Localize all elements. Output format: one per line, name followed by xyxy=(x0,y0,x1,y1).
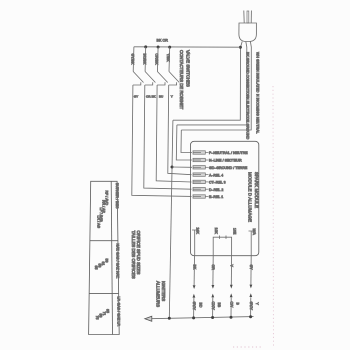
svg-text:B: B xyxy=(236,303,240,306)
wire switch 4 lower xyxy=(168,85,192,175)
junction dot bus igniter 2 xyxy=(211,316,214,319)
svg-text:D–REL 2: D–REL 2 xyxy=(209,188,223,192)
valve switch S1 blade xyxy=(133,72,143,83)
terminal REL2 xyxy=(193,188,209,191)
svg-text:CONTACTEURS DE ROBINET: CONTACTEURS DE ROBINET xyxy=(179,50,184,110)
spark module box U1 xyxy=(191,141,259,255)
table row separator 2 xyxy=(89,293,118,295)
svg-text:N–LINE / SECTEUR: N–LINE / SECTEUR xyxy=(209,159,242,163)
svg-text:BU/BK: BU/BK xyxy=(142,54,146,65)
plug P1 body xyxy=(239,23,257,42)
svg-text:CX/Y: CX/Y xyxy=(211,302,215,311)
terminal GROUND xyxy=(193,166,209,169)
svg-text:BK: BK xyxy=(193,265,197,270)
table header column line xyxy=(111,181,112,334)
junction dot bus tap 2 xyxy=(144,45,147,48)
svg-text:WH GREEN INSULATED: WH GREEN INSULATED xyxy=(256,52,260,93)
terminal REL1 xyxy=(193,195,209,198)
svg-text:GY/Y: GY/Y xyxy=(192,302,196,311)
junction dot plug-bus xyxy=(239,46,242,49)
svg-text:Y: Y xyxy=(171,95,173,99)
valve switch S2 blade xyxy=(145,72,155,83)
junction dot bus ground xyxy=(168,317,171,320)
wire neutral vertical xyxy=(181,130,192,153)
wire switch 2 upper xyxy=(144,47,147,72)
wire switch 1 upper xyxy=(132,47,135,72)
valve switch S3 blade xyxy=(157,72,167,83)
wire igniter 4 upper xyxy=(250,256,252,285)
svg-text:75: 75 xyxy=(95,316,99,320)
wire switch 3 lower xyxy=(156,85,191,182)
wire cord BK xyxy=(173,42,242,121)
arrow up igniter 2 xyxy=(211,294,214,298)
wire igniter 1 upper xyxy=(193,256,195,286)
svg-text:Y: Y xyxy=(255,303,259,306)
module pin stub 4 xyxy=(249,231,254,256)
wire ground vertical xyxy=(169,120,173,318)
svg-text:GD–GROUND / TERRE: GD–GROUND / TERRE xyxy=(209,166,248,170)
plug P1 prong 3 xyxy=(250,11,252,24)
svg-text:CT–REL 3: CT–REL 3 xyxy=(209,181,226,185)
svg-text:OR/BK: OR/BK xyxy=(155,54,159,66)
svg-text:ALLUMEURS: ALLUMEURS xyxy=(156,281,161,307)
label spark module xyxy=(248,172,260,222)
module pin ticks xyxy=(219,236,221,239)
svg-text:M/A: M/A xyxy=(252,229,256,236)
terminal REL3 xyxy=(193,180,209,183)
arrow down igniter 3 xyxy=(230,285,233,289)
valve switch S2 contact xyxy=(145,82,153,85)
svg-text:65: 65 xyxy=(94,266,98,270)
wire igniter 4 lower xyxy=(250,297,252,317)
arrow down igniter 2 xyxy=(212,285,215,289)
svg-text:GY/Y: GY/Y xyxy=(249,302,253,311)
module pin jumper bar xyxy=(213,237,231,256)
junction dot bus tap 3 xyxy=(157,46,160,49)
wire switch 4 upper xyxy=(168,47,171,71)
wire igniter 1 lower xyxy=(193,298,195,318)
svg-text:Y/BK: Y/BK xyxy=(166,54,170,63)
svg-text:GY/BK: GY/BK xyxy=(130,54,134,66)
chassis ground arrow xyxy=(145,316,152,321)
wire igniter 3 upper xyxy=(230,256,232,285)
terminal REL4 xyxy=(193,173,209,176)
wire line vertical xyxy=(176,125,192,160)
wire cord GR xyxy=(181,42,251,131)
arrow up igniter 1 xyxy=(193,294,196,298)
arrow down igniter 1 xyxy=(193,285,196,289)
svg-text:BD: BD xyxy=(198,303,202,308)
svg-text:MODULE D ALLUMAGE: MODULE D ALLUMAGE xyxy=(248,172,253,222)
wire igniter 3 lower xyxy=(230,297,232,317)
svg-text:TAILLES DES ORIFICES: TAILLES DES ORIFICES xyxy=(131,231,136,279)
svg-text:N INCOMING NEUTRAL: N INCOMING NEUTRAL xyxy=(256,94,260,134)
arrow up igniter 3 xyxy=(230,293,233,297)
junction dot bus igniter 1 xyxy=(192,316,195,319)
arrow up igniter 4 xyxy=(249,293,252,297)
wire switch 3 upper xyxy=(156,47,159,72)
table row separator 1 xyxy=(90,240,118,242)
svg-text:24K: 24K xyxy=(196,228,200,235)
terminal LINE xyxy=(193,158,209,161)
label igniters xyxy=(156,281,166,307)
label valve switches xyxy=(179,50,190,110)
scan artifact dots bottom right xyxy=(233,346,263,348)
module pin stub 1 xyxy=(192,230,197,256)
svg-text:NAT. GAS / GAZ NAT.: NAT. GAS / GAZ NAT. xyxy=(116,244,120,279)
svg-text:OR: OR xyxy=(211,265,215,271)
valve switch S4 contact xyxy=(169,82,177,85)
valve switch S1 contact xyxy=(133,82,141,85)
svg-text:BU: BU xyxy=(159,95,163,99)
svg-text:BK OR: BK OR xyxy=(157,39,169,43)
svg-text:P–NEUTRAL / NEUTRE: P–NEUTRAL / NEUTRE xyxy=(209,151,248,155)
wire igniter 2 upper xyxy=(212,256,214,285)
svg-text:E–REL 1: E–REL 1 xyxy=(209,195,223,199)
arrow down igniter 4 xyxy=(250,285,253,289)
svg-text:10K: 10K xyxy=(214,228,218,235)
junction dot bus tap 4 xyxy=(168,46,171,49)
wire switch 1 lower xyxy=(132,85,192,196)
svg-text:A–REL 4: A–REL 4 xyxy=(209,173,223,177)
svg-text:BK GROUND CONNECTOR: BK GROUND CONNECTOR xyxy=(245,52,249,98)
label orifice sizes xyxy=(131,231,141,279)
wire igniter ground bus xyxy=(150,317,253,319)
wire ground to terminal xyxy=(172,166,192,168)
valve switch S3 contact xyxy=(157,82,165,85)
svg-text:GY: GY xyxy=(134,95,138,99)
svg-text:OR BK: OR BK xyxy=(146,95,156,99)
table outer frame xyxy=(89,181,120,334)
plug P1 prong 2 (ground) xyxy=(247,11,249,23)
svg-text:IGNITERS: IGNITERS xyxy=(161,281,166,301)
svg-text:LP. GAS / GAZ LP.: LP. GAS / GAZ LP. xyxy=(116,297,120,327)
wire igniter 2 lower xyxy=(212,298,214,318)
junction dot bus igniter 4 xyxy=(249,315,252,318)
junction dot bus igniter 3 xyxy=(230,316,233,319)
plug P1 prong 1 xyxy=(243,11,245,24)
svg-text:BB: BB xyxy=(217,303,221,308)
svg-text:VALVE SWITCHES: VALVE SWITCHES xyxy=(185,50,190,87)
terminal NEUTRAL xyxy=(193,151,209,154)
svg-text:10E: 10E xyxy=(232,228,236,235)
svg-text:BURNER / BEC: BURNER / BEC xyxy=(115,183,119,209)
svg-text:GY: GY xyxy=(249,265,253,271)
wire cord WH xyxy=(177,42,247,125)
valve switch S4 blade xyxy=(169,72,179,83)
svg-text:SPARK MODULE: SPARK MODULE xyxy=(254,172,259,208)
svg-text:LR / AG: LR / AG xyxy=(97,216,101,229)
svg-text:C/Y: C/Y xyxy=(229,302,233,309)
wire switch bus xyxy=(134,46,241,48)
junction dot ground-terminal xyxy=(171,166,174,169)
svg-text:N ELECTRODE GROUND: N ELECTRODE GROUND xyxy=(245,97,249,140)
scan artifact dotted line xyxy=(272,86,275,348)
wire switch 2 lower xyxy=(144,85,192,189)
